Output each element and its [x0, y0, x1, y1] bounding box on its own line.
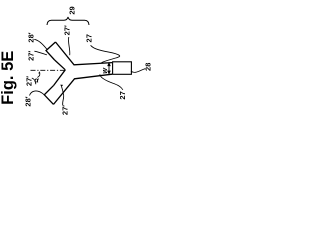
leader 27 bottom-right	[100, 74, 123, 90]
leader 27' left-upper	[34, 51, 47, 55]
svg-text:28′: 28′	[23, 96, 32, 106]
brace for 29	[47, 17, 89, 25]
outlet channel bottom wall	[54, 74, 113, 104]
width arrow w	[108, 63, 110, 74]
leader 27' top	[68, 37, 69, 55]
outlet channel top wall	[56, 42, 113, 65]
leader 27' left-lower	[32, 78, 36, 84]
lower inlet port cap	[44, 86, 53, 105]
svg-text:27′: 27′	[26, 51, 35, 61]
leader 28 right	[131, 69, 145, 73]
svg-text:27: 27	[84, 34, 93, 42]
upper inlet port cap	[46, 42, 56, 60]
upper inlet inner wall	[55, 60, 66, 70]
leader 27 top-right	[91, 45, 120, 62]
lower inlet inner wall	[54, 70, 66, 86]
svg-text:Fig. 5E: Fig. 5E	[0, 51, 17, 105]
leader 28' upper	[34, 39, 47, 49]
svg-text:29: 29	[68, 6, 77, 14]
svg-text:27′: 27′	[60, 105, 69, 115]
svg-text:28: 28	[144, 63, 153, 71]
svg-text:27′: 27′	[24, 76, 33, 86]
leader 27' bottom with arrow	[62, 87, 64, 105]
centerline dash-dot	[31, 69, 65, 71]
alpha angle arrow	[37, 73, 39, 78]
svg-text:α: α	[34, 78, 39, 85]
svg-text:w: w	[100, 67, 109, 74]
svg-text:27: 27	[118, 91, 127, 99]
leader 28' lower	[30, 91, 45, 96]
svg-text:27′: 27′	[62, 25, 71, 35]
svg-text:28′: 28′	[26, 32, 35, 42]
outlet box	[113, 62, 132, 75]
